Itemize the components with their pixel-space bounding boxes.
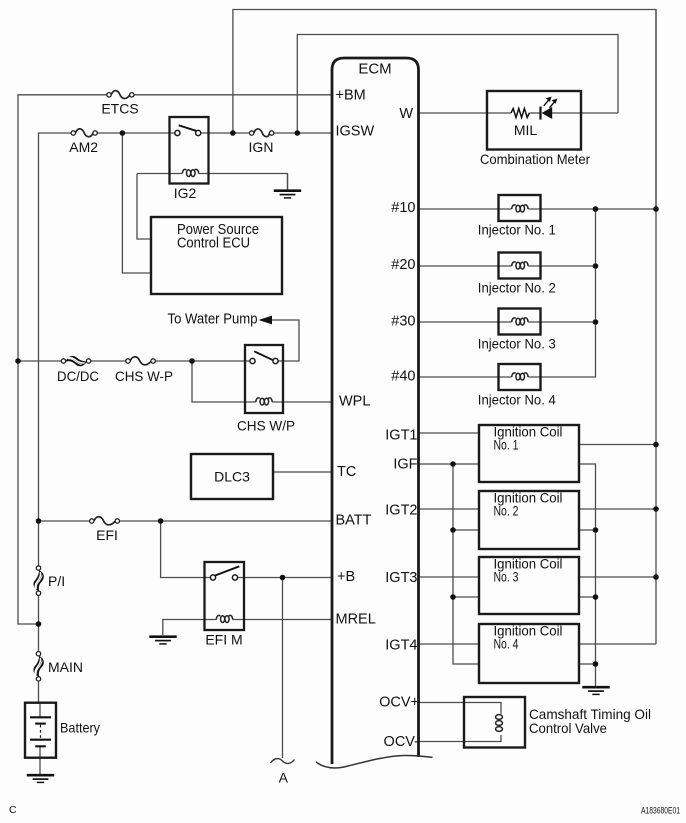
svg-text:No. 4: No. 4 — [494, 636, 519, 652]
svg-text:Control ECU: Control ECU — [177, 236, 250, 252]
svg-text:IGN: IGN — [249, 139, 274, 155]
svg-text:C: C — [9, 804, 17, 816]
svg-text:#10: #10 — [391, 200, 415, 216]
svg-text:+BM: +BM — [336, 88, 366, 104]
svg-text:#40: #40 — [391, 369, 415, 385]
svg-text:P/I: P/I — [48, 573, 65, 589]
svg-text:Injector No. 4: Injector No. 4 — [478, 392, 556, 408]
svg-text:IGT2: IGT2 — [385, 503, 417, 519]
svg-text:DC/DC: DC/DC — [57, 368, 99, 384]
svg-text:DLC3: DLC3 — [214, 469, 250, 485]
svg-text:ETCS: ETCS — [101, 101, 138, 117]
svg-text:IGT3: IGT3 — [385, 570, 417, 586]
svg-text:Combination Meter: Combination Meter — [480, 151, 590, 167]
svg-text:IGF: IGF — [393, 457, 417, 473]
svg-text:ECM: ECM — [358, 61, 391, 78]
svg-text:CHS W/P: CHS W/P — [237, 418, 295, 434]
svg-text:Injector No. 2: Injector No. 2 — [478, 280, 556, 296]
svg-text:EFI: EFI — [96, 527, 118, 543]
svg-text:WPL: WPL — [339, 394, 370, 410]
svg-text:A: A — [279, 770, 289, 786]
svg-text:EFI M: EFI M — [205, 632, 242, 648]
svg-text:Control Valve: Control Valve — [529, 720, 607, 736]
svg-text:IGSW: IGSW — [336, 124, 375, 140]
svg-text:Injector No. 1: Injector No. 1 — [478, 222, 556, 238]
svg-text:No. 3: No. 3 — [494, 569, 519, 585]
svg-text:IGT1: IGT1 — [385, 428, 417, 444]
svg-text:To Water Pump: To Water Pump — [168, 312, 258, 328]
svg-text:MREL: MREL — [336, 612, 376, 628]
svg-text:No. 1: No. 1 — [494, 437, 519, 453]
svg-text:MAIN: MAIN — [48, 659, 83, 675]
svg-text:IGT4: IGT4 — [385, 638, 417, 654]
svg-text:OCV-: OCV- — [384, 734, 420, 750]
svg-text:#20: #20 — [391, 257, 415, 273]
svg-text:+B: +B — [337, 569, 355, 585]
svg-text:Injector No. 3: Injector No. 3 — [478, 336, 556, 352]
svg-text:BATT: BATT — [336, 513, 372, 529]
svg-text:A183680E01: A183680E01 — [641, 806, 680, 816]
svg-text:MIL: MIL — [514, 122, 538, 138]
svg-text:TC: TC — [337, 464, 356, 480]
svg-text:#30: #30 — [391, 314, 415, 330]
svg-text:CHS W-P: CHS W-P — [115, 368, 173, 384]
svg-text:OCV+: OCV+ — [379, 695, 419, 711]
svg-text:IG2: IG2 — [174, 185, 197, 201]
svg-text:AM2: AM2 — [69, 139, 98, 155]
svg-text:Battery: Battery — [60, 720, 100, 736]
svg-text:W: W — [399, 106, 413, 122]
svg-text:No. 2: No. 2 — [494, 503, 519, 519]
